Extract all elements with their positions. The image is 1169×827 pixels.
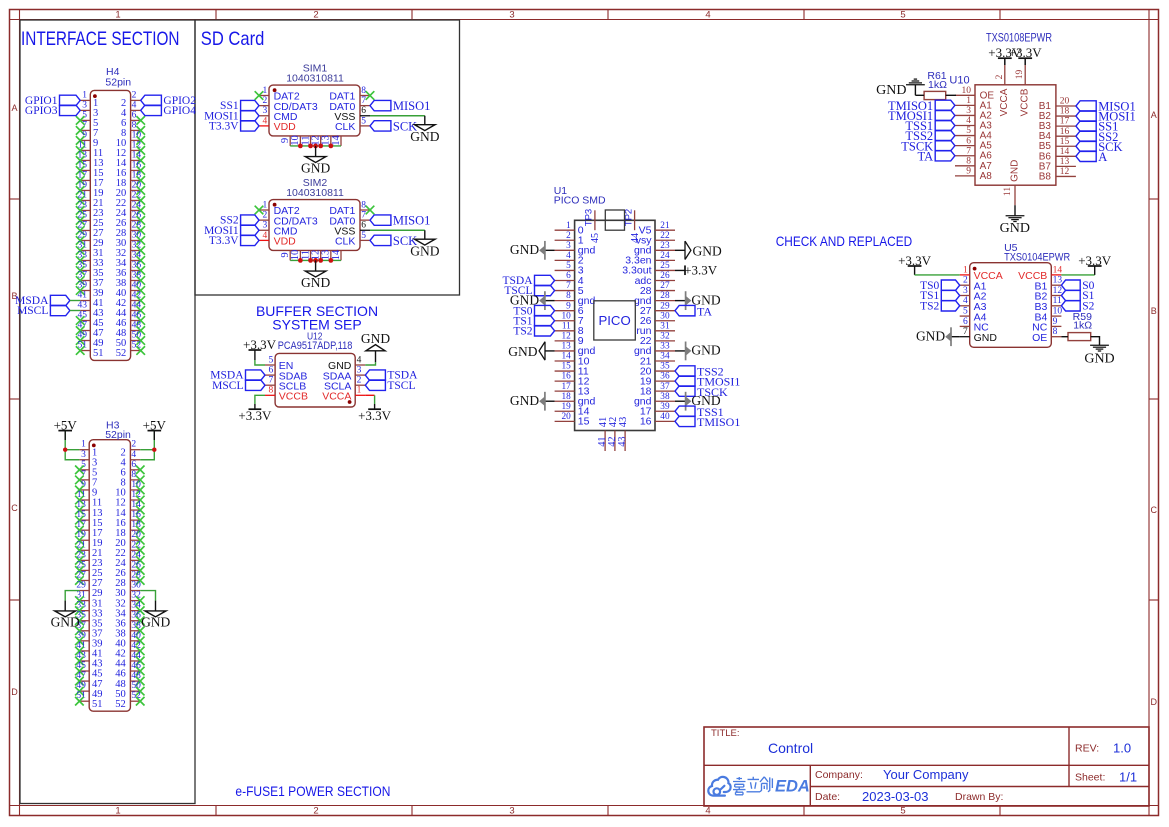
ground GND at U1 pin8 — [545, 300, 555, 302]
svg-text:GND: GND — [508, 344, 537, 359]
net flag TMOSI1 from U1 pin36 — [675, 376, 695, 386]
svg-text:6: 6 — [268, 366, 273, 376]
svg-text:GPIO3: GPIO3 — [25, 105, 58, 117]
resistor R59 1kOhm — [1068, 311, 1092, 341]
svg-text:B8: B8 — [1039, 171, 1052, 182]
svg-text:1kΩ: 1kΩ — [1073, 320, 1092, 332]
svg-text:3: 3 — [81, 450, 86, 460]
power +3.3V left of U5 — [908, 265, 922, 267]
svg-text:1: 1 — [357, 386, 362, 396]
svg-text:13: 13 — [1060, 157, 1070, 167]
svg-text:1.0: 1.0 — [1113, 741, 1131, 756]
svg-text:29: 29 — [76, 581, 86, 591]
svg-text:14: 14 — [1060, 147, 1070, 157]
net flag SCK from SIM2 — [370, 235, 391, 245]
svg-text:22: 22 — [660, 231, 670, 241]
net flag SS1 to SIM1 — [241, 100, 259, 110]
svg-text:52pin: 52pin — [105, 77, 131, 89]
net flag SS2 from U10 B4 — [1076, 131, 1096, 141]
svg-text:TXS0108EPWR: TXS0108EPWR — [986, 33, 1052, 45]
wire MSCL to H4 pin43 — [70, 310, 80, 312]
ground GND at R59 — [1090, 344, 1109, 346]
svg-text:40: 40 — [660, 412, 670, 422]
net flag TSCL from U12 — [365, 380, 385, 390]
svg-text:GND: GND — [410, 243, 439, 258]
net flag S2 from U5 B3 — [1061, 301, 1080, 311]
power +5V left of H3 — [58, 430, 72, 432]
svg-text:A8: A8 — [980, 171, 993, 182]
svg-text:2: 2 — [566, 231, 571, 241]
svg-text:10: 10 — [962, 86, 972, 96]
svg-text:8: 8 — [1053, 327, 1058, 337]
svg-text:+3.3V: +3.3V — [1009, 45, 1043, 60]
net flag MSCL — [50, 305, 70, 315]
svg-text:7: 7 — [361, 96, 366, 106]
svg-text:11: 11 — [1003, 187, 1013, 196]
svg-text:5: 5 — [268, 355, 273, 365]
svg-text:9: 9 — [82, 130, 87, 140]
connector H3 52pin — [75, 419, 144, 711]
svg-text:14: 14 — [562, 352, 572, 362]
svg-text:41: 41 — [78, 291, 88, 301]
svg-text:12: 12 — [1060, 167, 1070, 177]
ground GND at U5 pin7 — [951, 336, 960, 338]
svg-text:12: 12 — [562, 331, 572, 341]
net flag GPIO1 — [60, 95, 81, 105]
junction at H3 pin1 wire — [63, 448, 67, 452]
svg-text:20: 20 — [1060, 97, 1070, 107]
wire MSDA to H4 pin41 — [70, 300, 80, 302]
svg-text:A: A — [11, 103, 17, 113]
svg-text:GND: GND — [410, 129, 439, 144]
svg-text:1: 1 — [263, 200, 268, 210]
svg-text:4: 4 — [263, 231, 268, 241]
net flag MISO1 from SIM1 — [370, 100, 391, 110]
net flag TSS1 to U10 A3 — [935, 120, 955, 130]
svg-text:1: 1 — [82, 90, 87, 100]
svg-text:GND: GND — [510, 393, 539, 408]
svg-text:MSCL: MSCL — [212, 380, 243, 392]
svg-text:51: 51 — [93, 348, 104, 359]
svg-text:14: 14 — [331, 135, 342, 146]
wire R61 to U10 OE pin10 — [946, 94, 956, 96]
svg-text:4: 4 — [566, 251, 571, 261]
net flag MSCL to U12 — [246, 380, 266, 390]
svg-text:16: 16 — [1060, 127, 1070, 137]
svg-text:C: C — [1151, 505, 1158, 515]
svg-text:CLK: CLK — [335, 121, 355, 133]
svg-text:3: 3 — [82, 100, 87, 110]
net flag TS2 to U5 A3 — [941, 301, 959, 311]
net flag TSCL to U1 pin7 — [535, 285, 555, 295]
svg-text:+5V: +5V — [54, 418, 78, 433]
svg-text:INTERFACE SECTION: INTERFACE SECTION — [21, 28, 180, 50]
svg-text:5: 5 — [963, 307, 968, 317]
svg-text:2: 2 — [263, 96, 268, 106]
svg-text:6: 6 — [361, 106, 366, 116]
svg-text:43: 43 — [78, 301, 88, 311]
svg-text:A: A — [1151, 110, 1157, 120]
wire +3.3V to U12 pin5 — [254, 350, 256, 360]
svg-text:C: C — [11, 503, 18, 513]
svg-text:5: 5 — [361, 116, 366, 126]
ground GND at SIM2 VSS — [415, 239, 436, 245]
net flag SCK from U10 B5 — [1076, 141, 1096, 151]
power +3.3V below U12 VCCA — [368, 408, 381, 410]
svg-text:TXS0104EPWR: TXS0104EPWR — [1004, 252, 1070, 264]
svg-text:6: 6 — [963, 317, 968, 327]
connector H4 52pin — [76, 66, 145, 360]
svg-text:27: 27 — [660, 281, 670, 291]
svg-text:32: 32 — [660, 331, 670, 341]
svg-text:GND: GND — [510, 242, 539, 257]
svg-text:4: 4 — [966, 116, 971, 126]
net flag TMOSI1 to U10 A2 — [935, 110, 955, 120]
resistor R61 1kOhm — [924, 70, 947, 100]
net flag GPIO4 — [141, 105, 162, 115]
svg-text:6: 6 — [966, 136, 971, 146]
svg-text:TMISO1: TMISO1 — [697, 415, 740, 429]
svg-text:+5V: +5V — [143, 418, 167, 433]
svg-text:EDA: EDA — [775, 777, 810, 795]
svg-text:5: 5 — [82, 110, 87, 120]
svg-text:CLK: CLK — [335, 236, 355, 248]
svg-text:7: 7 — [361, 211, 366, 221]
net flag MISO1 from U10 B1 — [1076, 101, 1096, 111]
svg-text:8: 8 — [566, 291, 571, 301]
svg-text:D: D — [1151, 697, 1158, 707]
net flag TS0 to U5 A1 — [941, 280, 959, 290]
svg-text:15: 15 — [562, 362, 572, 372]
svg-text:25: 25 — [660, 261, 670, 271]
wire +5V to H3 pins 1,3 — [65, 431, 79, 460]
svg-text:GND: GND — [301, 161, 330, 176]
wire SIM2 bottom pins bus to GND — [290, 259, 341, 261]
svg-text:30: 30 — [660, 311, 670, 321]
svg-text:16: 16 — [640, 416, 652, 428]
net flag TSCK from U1 pin37 — [675, 386, 695, 396]
svg-text:43: 43 — [618, 417, 629, 428]
svg-text:Sheet:: Sheet: — [1075, 772, 1105, 784]
svg-text:1: 1 — [115, 9, 120, 20]
power +3.3V at U10 VCCB pin19 — [1024, 58, 1026, 65]
svg-text:e-FUSE1 POWER SECTION: e-FUSE1 POWER SECTION — [235, 783, 390, 799]
svg-text:37: 37 — [660, 382, 670, 392]
svg-text:+3.3V: +3.3V — [898, 253, 932, 268]
svg-text:GND: GND — [974, 332, 998, 344]
svg-text:GND: GND — [361, 331, 390, 346]
net flag A from U10 B6 — [1076, 151, 1096, 161]
ground GND at U1 pin18 — [545, 400, 555, 402]
svg-text:4: 4 — [705, 9, 710, 20]
svg-text:1: 1 — [963, 265, 968, 275]
svg-text:+3.3V: +3.3V — [358, 408, 392, 423]
test point TP2 pin of U1 — [634, 210, 636, 230]
svg-text:14: 14 — [1053, 265, 1063, 275]
svg-text:Control: Control — [768, 740, 813, 756]
svg-text:Drawn By:: Drawn By: — [955, 791, 1003, 803]
svg-text:38: 38 — [660, 392, 670, 402]
svg-text:43: 43 — [617, 436, 628, 446]
svg-text:9: 9 — [1053, 317, 1058, 327]
svg-text:15: 15 — [578, 416, 590, 428]
svg-text:VCCA: VCCA — [999, 88, 1010, 116]
wire +3.3V to U5 VCCA — [914, 266, 916, 275]
ground GND right of H3 — [155, 601, 157, 611]
svg-text:5: 5 — [966, 126, 971, 136]
svg-text:36: 36 — [660, 372, 670, 382]
wire U5 OE to R59 — [1061, 336, 1068, 338]
svg-text:5: 5 — [900, 805, 905, 816]
svg-text:GND: GND — [1009, 160, 1020, 182]
svg-text:19: 19 — [562, 402, 572, 412]
module U1 PICO SMD — [554, 185, 675, 451]
net flag TS1 to U5 A2 — [941, 290, 959, 300]
svg-text:4: 4 — [132, 100, 137, 110]
net flag SS2 to SIM2 — [241, 215, 259, 225]
svg-text:4: 4 — [131, 450, 136, 460]
svg-text:8: 8 — [132, 120, 137, 130]
svg-text:GND: GND — [693, 243, 722, 258]
svg-text:VDD: VDD — [274, 236, 297, 248]
svg-text:6: 6 — [566, 271, 571, 281]
net flag MOSI1 to SIM2 — [241, 225, 259, 235]
svg-text:16: 16 — [562, 372, 572, 382]
svg-text:GND: GND — [916, 329, 945, 344]
svg-text:1/1: 1/1 — [1119, 770, 1137, 785]
svg-text:3: 3 — [263, 221, 268, 231]
svg-text:15: 15 — [1060, 137, 1070, 147]
ground GND at U10 pin11 — [1014, 205, 1016, 216]
svg-text:3: 3 — [509, 805, 514, 816]
net flag GPIO2 — [141, 95, 162, 105]
svg-text:30: 30 — [131, 581, 141, 591]
power +3.3V right of U5 — [1088, 265, 1102, 267]
svg-text:1040310811: 1040310811 — [286, 73, 344, 85]
svg-text:52pin: 52pin — [105, 429, 131, 441]
svg-text:31: 31 — [660, 321, 670, 331]
svg-text:29: 29 — [660, 301, 670, 311]
net flag TA to U10 A6 — [935, 151, 955, 161]
net flag S1 from U5 B2 — [1061, 290, 1080, 300]
svg-text:6: 6 — [361, 221, 366, 231]
svg-text:MISO1: MISO1 — [393, 99, 431, 113]
power +3.3V above U12 EN — [249, 349, 262, 351]
svg-text:TP3: TP3 — [584, 209, 595, 226]
svg-text:MSCL: MSCL — [17, 305, 48, 317]
svg-text:GND: GND — [1084, 351, 1114, 366]
svg-text:52: 52 — [115, 699, 126, 710]
svg-text:7: 7 — [966, 146, 971, 156]
svg-text:1: 1 — [966, 96, 971, 106]
svg-text:14: 14 — [331, 249, 342, 260]
test point TP3 pin of U1 — [594, 210, 596, 230]
svg-text:TA: TA — [918, 149, 934, 163]
svg-text:1: 1 — [115, 805, 120, 816]
net flag TSCK to U10 A5 — [935, 140, 955, 150]
svg-text:SD Card: SD Card — [201, 28, 264, 50]
svg-text:3: 3 — [509, 9, 514, 20]
PICO inner square — [594, 301, 636, 340]
svg-text:8: 8 — [966, 156, 971, 166]
net flag TMISO1 to U10 A1 — [935, 100, 955, 110]
svg-text:VDD: VDD — [274, 121, 297, 133]
svg-text:2: 2 — [263, 211, 268, 221]
net flag MOSI1 from U10 B2 — [1076, 111, 1096, 121]
svg-text:+3.3V: +3.3V — [1078, 253, 1112, 268]
svg-text:4: 4 — [705, 805, 710, 816]
net flag TSDA to U1 pin6 — [535, 275, 555, 285]
svg-text:45: 45 — [590, 233, 601, 243]
svg-text:Date:: Date: — [815, 791, 840, 803]
svg-text:GND: GND — [876, 83, 906, 98]
net flag MSDA — [50, 295, 70, 305]
svg-text:VCCA: VCCA — [322, 391, 351, 403]
svg-text:TSCL: TSCL — [387, 380, 415, 392]
svg-text:2: 2 — [357, 376, 362, 386]
svg-text:5: 5 — [361, 231, 366, 241]
svg-text:3: 3 — [263, 106, 268, 116]
svg-text:D: D — [11, 687, 18, 697]
svg-text:44: 44 — [630, 233, 641, 243]
net flag SS1 from U10 B3 — [1076, 121, 1096, 131]
U1 bottom pins 41-43 — [604, 431, 606, 452]
svg-text:U10: U10 — [949, 74, 969, 86]
wire U12 pin4 to GND — [365, 362, 375, 365]
svg-text:11: 11 — [1053, 296, 1062, 306]
junction at H3 pin2 wire — [152, 448, 156, 452]
net flag SCK from SIM1 — [370, 121, 391, 131]
ground GND at U1 pin23 — [675, 249, 685, 251]
power +5V right of H3 — [148, 430, 162, 432]
net flag TS2 to U1 pin11 — [535, 326, 555, 336]
svg-text:8: 8 — [131, 470, 136, 480]
svg-text:6: 6 — [131, 460, 136, 470]
wire SIM1 VSS to GND — [370, 115, 425, 117]
wire H3 pin29 to GND — [65, 591, 79, 601]
ground GND below SIM2 — [315, 260, 317, 271]
svg-text:21: 21 — [660, 221, 670, 231]
net flag TSS2 to U10 A4 — [935, 130, 955, 140]
svg-text:PICO: PICO — [598, 313, 630, 328]
svg-text:2: 2 — [131, 440, 136, 450]
svg-text:TS2: TS2 — [920, 300, 939, 312]
svg-text:GND: GND — [141, 614, 170, 629]
INTERFACE SECTION box — [20, 20, 195, 804]
svg-text:26: 26 — [660, 271, 670, 281]
svg-text:2: 2 — [995, 74, 1005, 79]
net flag S0 from U5 B1 — [1061, 280, 1080, 290]
svg-text:CHECK AND REPLACED: CHECK AND REPLACED — [776, 233, 913, 249]
svg-text:2: 2 — [313, 9, 318, 20]
svg-text:10: 10 — [1053, 307, 1063, 317]
svg-text:13: 13 — [1053, 276, 1063, 286]
power +3.3V below U12 VCCB — [249, 408, 262, 410]
svg-text:VCCB: VCCB — [279, 391, 308, 403]
wire SIM2 VSS to GND — [370, 229, 425, 231]
svg-text:11: 11 — [562, 321, 571, 331]
wire U12 pin8 to +3.3V — [255, 395, 265, 404]
net flag T3.3V to SIM1 — [241, 121, 259, 131]
ground GND above U12 pin4 — [375, 351, 377, 363]
svg-text:23: 23 — [660, 241, 670, 251]
net flag T3.3V to SIM2 — [241, 235, 259, 245]
svg-text:+3.3V: +3.3V — [238, 408, 272, 423]
wire SIM1 bottom pins bus to GND — [290, 145, 341, 147]
ground GND below SIM1 — [315, 146, 317, 157]
svg-text:35: 35 — [660, 362, 670, 372]
svg-text:13: 13 — [562, 342, 572, 352]
svg-text:4: 4 — [963, 296, 968, 306]
svg-text:GND: GND — [301, 275, 330, 290]
svg-text:+3.3V: +3.3V — [243, 337, 277, 352]
power +3.3V at U10 VCCA pin2 — [1004, 58, 1006, 65]
SD card socket SIM2 1040310811 — [255, 177, 375, 260]
svg-text:8: 8 — [361, 86, 366, 96]
ground GND at U1 pin3 — [545, 249, 555, 251]
svg-text:GND: GND — [1000, 221, 1030, 236]
svg-text:OE: OE — [1032, 332, 1047, 344]
svg-text:1: 1 — [263, 86, 268, 96]
svg-text:TITLE:: TITLE: — [711, 728, 740, 739]
ground GND at R61 — [914, 85, 916, 96]
svg-text:12: 12 — [1053, 286, 1063, 296]
svg-text:2023-03-03: 2023-03-03 — [862, 789, 929, 804]
svg-text:18: 18 — [1060, 107, 1070, 117]
wire +5V to H3 pins 2,4 — [140, 431, 154, 460]
svg-text:5: 5 — [566, 261, 571, 271]
svg-text:1: 1 — [81, 440, 86, 450]
svg-text:GND: GND — [51, 614, 80, 629]
svg-text:3: 3 — [357, 366, 362, 376]
svg-text:1: 1 — [566, 221, 571, 231]
svg-text:TS2: TS2 — [513, 325, 532, 337]
svg-text:4: 4 — [263, 116, 268, 126]
svg-text:1kΩ: 1kΩ — [928, 79, 947, 91]
SD card socket SIM1 1040310811 — [255, 63, 375, 146]
wire R59 to GND — [1091, 337, 1100, 346]
SD Card section box — [195, 20, 460, 295]
svg-text:7: 7 — [268, 376, 273, 386]
svg-text:20: 20 — [562, 412, 572, 422]
svg-text:17: 17 — [562, 382, 572, 392]
svg-text:24: 24 — [660, 251, 670, 261]
ground GND left of H3 — [64, 601, 66, 611]
svg-text:4: 4 — [357, 355, 362, 365]
IC U12 PCA9517ADP,118 — [265, 330, 365, 407]
net flag TA from U1 pin29 — [675, 305, 695, 315]
svg-text:T3.3V: T3.3V — [209, 120, 239, 132]
svg-text:MISO1: MISO1 — [393, 214, 431, 228]
svg-text:39: 39 — [660, 402, 670, 412]
svg-text:2: 2 — [132, 90, 137, 100]
EasyEDA JLC logo — [708, 777, 810, 796]
svg-text:PCA9517ADP,118: PCA9517ADP,118 — [278, 340, 353, 352]
svg-text:Your Company: Your Company — [883, 767, 969, 782]
svg-text:52: 52 — [116, 348, 127, 359]
net flag TSDA from U12 — [365, 370, 385, 380]
wire H3 pin30 to GND — [140, 591, 155, 601]
net flag MSDA to U12 — [246, 370, 266, 380]
svg-text:33: 33 — [660, 342, 670, 352]
svg-text:GND: GND — [691, 343, 720, 358]
svg-text:Company:: Company: — [815, 769, 863, 781]
svg-text:1040310811: 1040310811 — [286, 187, 344, 199]
ground GND at U1 pin33 — [675, 350, 686, 352]
ground GND at U1 pin28 — [675, 300, 686, 302]
BOOTSEL button square on U1 — [605, 210, 624, 230]
svg-text:7: 7 — [566, 281, 571, 291]
